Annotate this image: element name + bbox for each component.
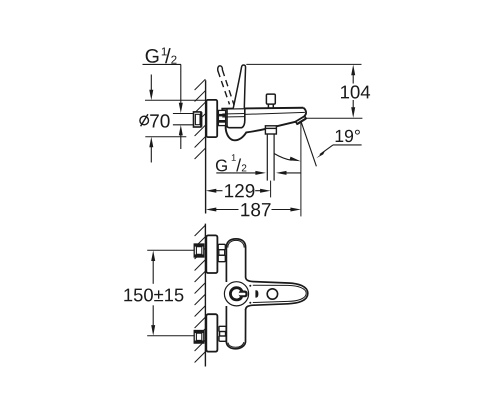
text glyphs 129 [225,184,254,197]
arm black pin [255,290,258,297]
wall hatching (side view) [195,79,206,159]
text glyphs 104 [341,85,370,98]
knob power-symbol ring [230,288,242,300]
dimension 150±15 [151,250,155,335]
150±15 extension lines [147,249,194,251]
handle arm (front view) [246,277,308,310]
lower mounting nut [194,331,204,344]
faucet body top edge (side view) [222,108,303,111]
G1/2 hose dimension arrows [216,171,301,175]
text glyphs 150±15 [124,288,183,301]
upper union rings [218,244,225,261]
body underside boot curve [226,126,266,141]
handle arm inner line [253,285,306,302]
text glyphs 70 [150,114,169,127]
hose centerline extension [270,181,272,198]
lower escutcheon (front view) [206,314,217,351]
Ø70 dimension arrows [149,75,153,163]
dimension 104 extension lines [246,63,361,65]
knob bar [239,291,248,298]
label 19° with leader [336,130,360,142]
19° slanted line [301,122,316,166]
faucet body capsule (front view) [226,239,245,349]
lever handle (solid) [233,65,245,108]
upper escutcheon (front view) [206,235,217,273]
Ø symbol [140,114,149,126]
arm ring hole [267,289,277,299]
Ø70 extension lines [145,99,206,101]
label G1/2 (top) [146,47,177,63]
shower hose collar [265,126,276,134]
text glyphs 2 [242,164,247,171]
text glyphs / [165,48,171,63]
knurled union nut (side view) [218,110,225,125]
G1/2 leader with arrows to pipe [179,64,183,149]
shower hose pipes [267,134,274,181]
lower union rings [219,326,226,341]
label G1/2 (lower, hose) [216,154,246,171]
text glyphs 1 [162,47,167,55]
dimension 187 [206,208,301,212]
upper mounting nut [194,244,204,257]
text glyphs / [236,159,241,172]
text glyphs 187 [241,203,270,216]
escutcheon flange (side view) [206,100,217,137]
text glyphs 2 [171,56,176,64]
text glyphs G [216,159,227,171]
19° angle arc with arrows [274,154,300,162]
wall (side view) [205,80,207,213]
label Ø70 [150,114,169,127]
text glyphs G [146,49,159,63]
arm dots [249,285,251,287]
pipe union fitting [194,112,203,127]
knob outer circle [224,282,248,306]
spout underside [277,122,296,127]
text glyphs 19° [336,130,360,142]
dimension 104 [351,65,355,118]
lever handle raised position (dashed) [218,66,234,105]
cartridge dome [227,109,245,128]
body seam lines [222,112,305,117]
dimension 129 [206,189,271,193]
body cap inner lines [228,240,244,347]
G1/2 underline [143,63,182,65]
spout tip extension line (187) [300,122,302,216]
wall hatching (front view) [195,225,206,362]
spout front face [303,108,306,116]
diverter knob [266,94,275,108]
wall (front view) [204,224,206,367]
aerator mousseur (19° tilted) [296,116,306,124]
text glyphs 1 [232,154,236,161]
supply pipe behind wall [173,114,194,125]
